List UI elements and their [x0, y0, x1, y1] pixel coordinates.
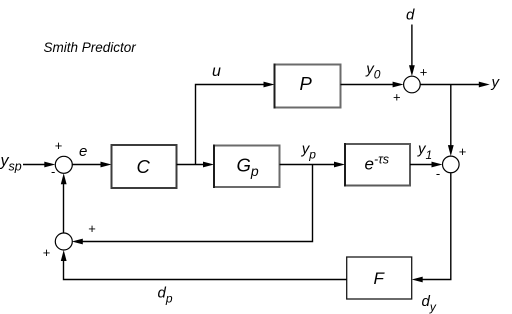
wire S3 -> y output	[420, 82, 490, 88]
block Gp	[214, 145, 280, 189]
wire u branch: C output up to P	[196, 82, 275, 165]
svg-text:+: +	[420, 65, 428, 80]
summing junction S1 (left)	[55, 156, 72, 173]
wire ysp -> S1	[23, 162, 55, 168]
block C	[112, 145, 177, 188]
svg-text:+: +	[43, 245, 51, 260]
svg-text:+: +	[393, 90, 401, 105]
svg-text:C: C	[137, 156, 151, 177]
wire Gp -> e^-ts	[280, 162, 346, 168]
wire d -> S3	[409, 25, 415, 77]
svg-text:u: u	[212, 63, 221, 80]
block e^-tau*s	[345, 143, 410, 187]
block F	[347, 257, 412, 299]
svg-text:d: d	[406, 7, 415, 24]
summing junction S2 (lower left)	[55, 233, 72, 250]
wire e^-ts -> S4	[410, 162, 443, 168]
wire P -> S3	[341, 82, 404, 88]
svg-text:Smith Predictor: Smith Predictor	[44, 40, 137, 55]
wire S4 down and left into F	[412, 173, 451, 283]
svg-text:+: +	[459, 144, 467, 159]
svg-text:+: +	[55, 138, 63, 153]
svg-text:P: P	[300, 73, 313, 94]
svg-text:e: e	[79, 143, 87, 160]
summing junction S3 (top right)	[404, 76, 421, 93]
wire yp branch down and left into S2	[72, 165, 313, 245]
svg-text:-: -	[436, 166, 440, 181]
block P	[275, 64, 341, 109]
svg-text:F: F	[374, 269, 386, 288]
wire y branch down to S4	[448, 85, 454, 157]
summing junction S4 (right)	[443, 156, 460, 173]
svg-text:+: +	[88, 221, 96, 236]
wire S1 -> C	[72, 162, 112, 168]
wire C -> Gp	[177, 162, 215, 168]
wire F left and up into S2	[61, 250, 347, 280]
wire S2 up to S1	[61, 173, 67, 233]
svg-text:-: -	[51, 164, 55, 179]
